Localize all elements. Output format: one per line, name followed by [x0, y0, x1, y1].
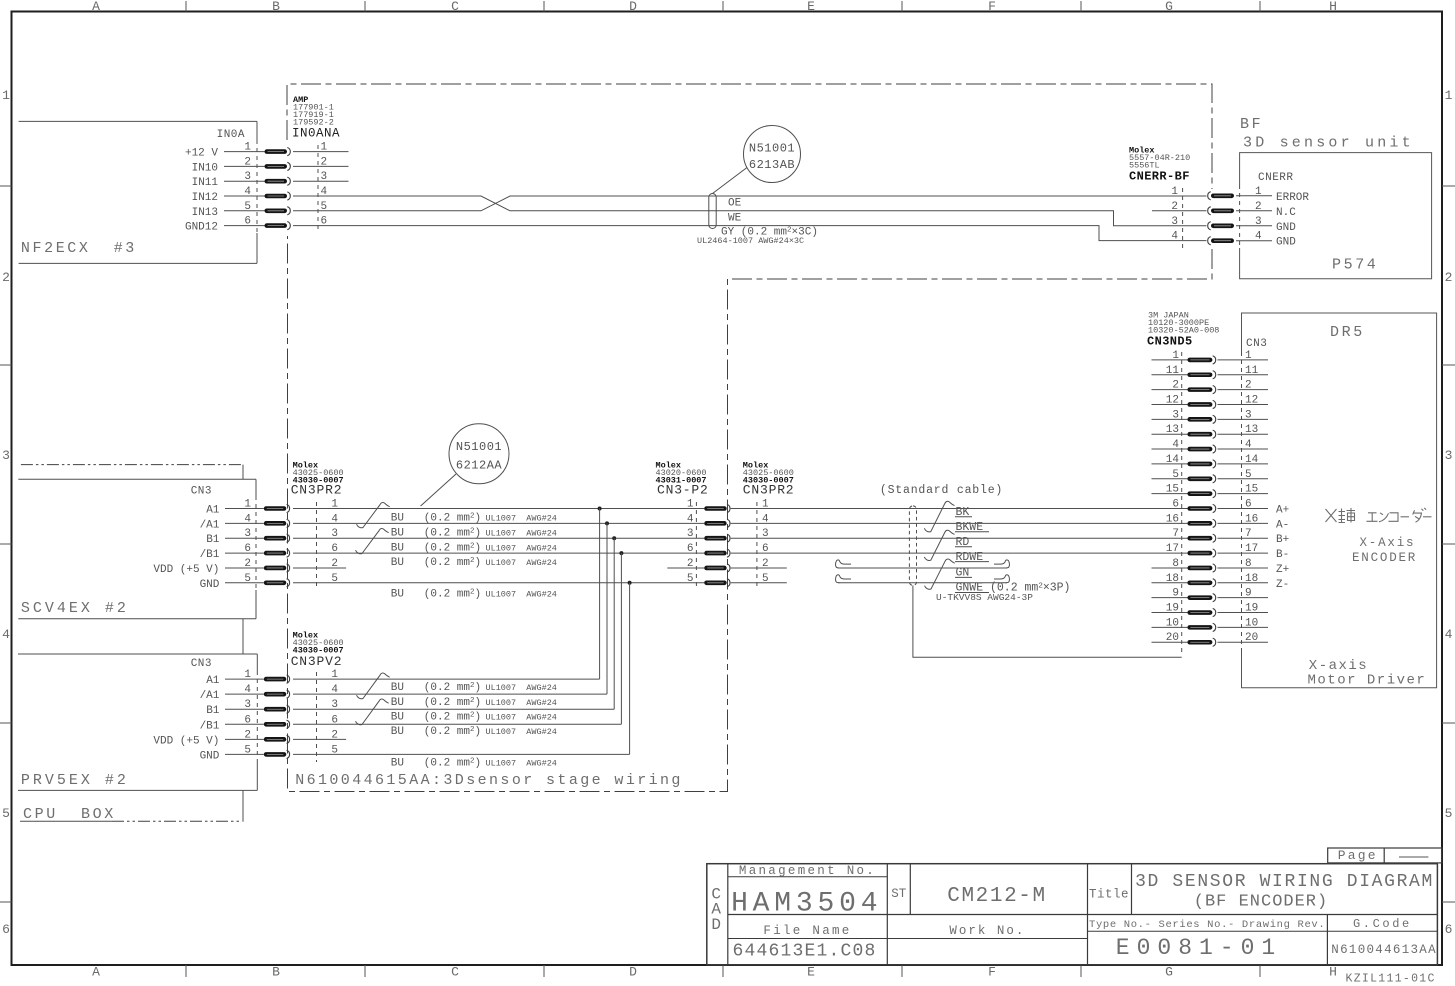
breakout marks standard cable: [924, 501, 954, 532]
svg-text:IN10: IN10: [192, 162, 218, 174]
breakout marks CN3PR2: [357, 503, 390, 528]
svg-text:IN13: IN13: [192, 207, 218, 219]
svg-text:/A1: /A1: [200, 519, 220, 531]
connector CN3ND5 dashed boundary: [1181, 352, 1183, 655]
device SCV4EX #2: [18, 478, 256, 480]
svg-text:IN0ANA: IN0ANA: [292, 127, 340, 141]
svg-text:D: D: [711, 916, 721, 934]
svg-text:6: 6: [244, 216, 251, 228]
svg-text:1: 1: [1245, 350, 1252, 362]
page box: [1328, 848, 1442, 863]
svg-text:UL1007 AWG#24: UL1007 AWG#24: [486, 529, 557, 539]
svg-text:UL2464-1007 AWG#24×3C: UL2464-1007 AWG#24×3C: [697, 236, 804, 246]
svg-text:BU (0.2 mm2): BU (0.2 mm2): [391, 682, 481, 694]
wire RD to DR5 pin7: [731, 537, 1188, 539]
svg-text:1: 1: [1255, 186, 1262, 198]
wire /B1: [293, 552, 704, 554]
svg-text:12: 12: [1245, 394, 1258, 406]
svg-text:G.Code: G.Code: [1353, 917, 1412, 931]
svg-text:3: 3: [2, 448, 10, 463]
svg-text:H: H: [1329, 0, 1337, 14]
svg-text:CN3: CN3: [191, 658, 212, 670]
CPU BOX boundary: [21, 464, 243, 466]
svg-text:2: 2: [1445, 270, 1453, 285]
spare wire GNWE with curled ends: [838, 582, 1007, 584]
wire /B1 PRV5EX: [293, 723, 621, 725]
svg-text:C: C: [451, 0, 459, 14]
svg-text:Title: Title: [1089, 888, 1129, 902]
svg-text:CN3PR2: CN3PR2: [743, 483, 795, 498]
junction + tap wire 3: [612, 536, 616, 540]
wire VDD stub PRV5EX: [293, 738, 346, 740]
svg-text:7: 7: [1245, 528, 1252, 540]
wire BKWE to DR5 pin16: [731, 522, 1188, 524]
svg-text:UL1007 AWG#24: UL1007 AWG#24: [486, 514, 557, 524]
svg-text:A: A: [92, 965, 100, 980]
svg-text:F: F: [988, 0, 996, 14]
svg-text:N610044615AA:3Dsensor stage wi: N610044615AA:3Dsensor stage wiring: [295, 772, 683, 789]
svg-text:CPU BOX: CPU BOX: [23, 806, 116, 823]
svg-text:BF: BF: [1240, 116, 1263, 133]
svg-text:6: 6: [687, 543, 694, 555]
svg-text:4: 4: [2, 627, 10, 642]
svg-text:14: 14: [1245, 454, 1259, 466]
junction + tap wire 5: [628, 581, 632, 585]
svg-text:B1: B1: [206, 534, 220, 546]
svg-text:/B1: /B1: [200, 720, 220, 732]
wire GND SCV4EX to CN3-P2: [293, 582, 704, 584]
svg-text:B+: B+: [1276, 534, 1289, 546]
svg-text:5: 5: [1245, 469, 1252, 481]
svg-text:BU (0.2 mm2): BU (0.2 mm2): [391, 758, 481, 770]
cable bundle oval: [709, 194, 716, 229]
shield/drain wire to CN3ND5: [913, 585, 1182, 657]
svg-text:Type No.- Series No.- Drawing: Type No.- Series No.- Drawing Rev.: [1089, 919, 1325, 931]
wire GND12 (to CNERR pin4): [293, 226, 1207, 241]
callout balloon N51001 6212AA: [449, 424, 509, 484]
svg-text:3D sensor unit: 3D sensor unit: [1243, 135, 1414, 152]
svg-text:Page: Page: [1338, 848, 1378, 863]
svg-text:NF2ECX #3: NF2ECX #3: [21, 240, 137, 257]
svg-text:N51001: N51001: [456, 440, 502, 454]
wire RDWE to DR5 pin17: [731, 552, 1188, 554]
svg-text:Z-: Z-: [1276, 579, 1289, 591]
svg-text:G: G: [1165, 0, 1173, 14]
svg-text:IN12: IN12: [192, 192, 218, 204]
device NF2ECX #3: [19, 120, 257, 122]
svg-text:UL1007 AWG#24: UL1007 AWG#24: [486, 759, 557, 769]
svg-text:OE: OE: [728, 198, 742, 210]
stub VDD at CN3-P2: [667, 567, 704, 569]
svg-text:2: 2: [1171, 201, 1178, 213]
svg-text:G: G: [1165, 965, 1173, 980]
svg-text:BU (0.2 mm2): BU (0.2 mm2): [391, 697, 481, 709]
wire B1 PRV5EX: [293, 708, 614, 710]
svg-text:6213AB: 6213AB: [749, 158, 795, 172]
svg-text:1: 1: [244, 499, 251, 511]
stub VDD right of CN3PR2: [731, 567, 787, 569]
svg-text:6: 6: [244, 714, 251, 726]
breakout marks CN3PV2: [357, 673, 390, 699]
svg-text:B1: B1: [206, 705, 220, 717]
svg-text:/B1: /B1: [200, 549, 220, 561]
svg-text:N610044613AA: N610044613AA: [1331, 943, 1437, 957]
wire VDD stub: [293, 567, 346, 569]
svg-text:File Name: File Name: [763, 924, 851, 938]
svg-text:N51001: N51001: [749, 142, 795, 156]
svg-text:3: 3: [1445, 448, 1453, 463]
svg-text:UL1007 AWG#24: UL1007 AWG#24: [486, 698, 557, 708]
svg-text:5: 5: [244, 573, 251, 585]
svg-text:F: F: [988, 965, 996, 980]
svg-text:X-Axis: X-Axis: [1360, 536, 1416, 550]
svg-text:9: 9: [1245, 588, 1252, 600]
svg-text:A1: A1: [206, 675, 220, 687]
svg-text:+12 V: +12 V: [185, 148, 218, 160]
svg-text:U-TKVV8S AWG24-3P: U-TKVV8S AWG24-3P: [936, 592, 1033, 603]
svg-text:UL1007 AWG#24: UL1007 AWG#24: [486, 712, 557, 722]
svg-text:4: 4: [244, 684, 251, 696]
svg-text:GND12: GND12: [185, 222, 218, 234]
svg-text:GND: GND: [200, 579, 220, 591]
svg-text:GND: GND: [1276, 237, 1296, 249]
svg-text:1: 1: [1445, 88, 1453, 103]
svg-text:1: 1: [244, 142, 251, 154]
svg-text:UL1007 AWG#24: UL1007 AWG#24: [486, 543, 557, 553]
svg-text:10: 10: [1245, 617, 1258, 629]
svg-text:Management No.: Management No.: [739, 864, 876, 878]
svg-text:CN3PR2: CN3PR2: [291, 483, 343, 498]
svg-text:CN3PV2: CN3PV2: [291, 654, 343, 669]
svg-text:B: B: [272, 965, 280, 980]
svg-text:ENCODER: ENCODER: [1352, 551, 1417, 565]
svg-text:11: 11: [1245, 365, 1259, 377]
svg-text:5: 5: [1445, 806, 1453, 821]
svg-text:VDD (+5 V): VDD (+5 V): [153, 735, 219, 747]
svg-text:/A1: /A1: [200, 690, 220, 702]
svg-text:WE: WE: [728, 213, 742, 225]
svg-text:19: 19: [1245, 603, 1258, 615]
svg-text:Z+: Z+: [1276, 564, 1289, 576]
svg-text:BU (0.2 mm2): BU (0.2 mm2): [391, 528, 481, 540]
svg-text:BU (0.2 mm2): BU (0.2 mm2): [391, 726, 481, 738]
svg-text:CN3: CN3: [1246, 338, 1267, 350]
svg-text:VDD (+5 V): VDD (+5 V): [153, 564, 219, 576]
svg-text:2: 2: [2, 270, 10, 285]
svg-text:(BF ENCODER): (BF ENCODER): [1194, 892, 1328, 911]
svg-text:E: E: [807, 0, 815, 14]
cable assembly boundary N610044615AA: [287, 84, 1212, 189]
svg-text:3: 3: [1171, 216, 1178, 228]
title block: [707, 864, 1438, 965]
svg-text:5: 5: [687, 573, 694, 585]
svg-text:6212AA: 6212AA: [456, 459, 503, 473]
svg-text:P574: P574: [1332, 257, 1378, 274]
connector IN0ANA dashed boundary: [317, 145, 319, 232]
svg-text:6: 6: [2, 922, 10, 937]
wire A1 PRV5EX: [293, 678, 600, 680]
svg-text:4: 4: [1245, 439, 1252, 451]
svg-text:3D SENSOR WIRING DIAGRAM: 3D SENSOR WIRING DIAGRAM: [1135, 872, 1434, 892]
svg-text:D: D: [629, 0, 637, 14]
svg-text:CN3ND5: CN3ND5: [1147, 335, 1193, 349]
svg-text:C: C: [451, 965, 459, 980]
device DR5 X-axis motor driver: [1242, 313, 1437, 688]
svg-text:CN3-P2: CN3-P2: [657, 483, 709, 498]
spare wire GN with curled ends: [838, 567, 1007, 569]
wire GND PRV5EX: [293, 753, 630, 755]
label X-axis encoder (JP): [1326, 508, 1432, 523]
svg-text:CNERR: CNERR: [1258, 172, 1294, 184]
svg-text:1: 1: [244, 669, 251, 681]
svg-text:BU (0.2 mm2): BU (0.2 mm2): [391, 589, 481, 601]
svg-text:3: 3: [1245, 409, 1252, 421]
cable sheath marker (dashed capsule): [909, 506, 916, 586]
svg-text:4: 4: [687, 513, 694, 525]
svg-text:E0081-01: E0081-01: [1116, 935, 1282, 961]
svg-text:A1: A1: [206, 505, 220, 517]
svg-text:2: 2: [244, 729, 251, 741]
svg-text:8: 8: [1245, 558, 1252, 570]
svg-text:DR5: DR5: [1330, 324, 1365, 341]
callout balloon N51001 6213AB: [744, 126, 801, 183]
svg-text:3: 3: [244, 699, 251, 711]
svg-text:18: 18: [1245, 573, 1258, 585]
svg-text:4: 4: [244, 513, 251, 525]
svg-text:5: 5: [244, 201, 251, 213]
stub CNERR pin2 N.C: [1152, 210, 1207, 212]
svg-text:1: 1: [1171, 186, 1178, 198]
svg-text:16: 16: [1245, 513, 1258, 525]
svg-text:ST: ST: [891, 887, 907, 901]
svg-text:1: 1: [687, 499, 694, 511]
svg-text:3: 3: [687, 528, 694, 540]
svg-text:6: 6: [1445, 922, 1453, 937]
connector CNERR-BF dashed boundary: [1182, 188, 1184, 248]
svg-text:B: B: [272, 0, 280, 14]
svg-text:4: 4: [1445, 627, 1453, 642]
svg-text:BU (0.2 mm2): BU (0.2 mm2): [391, 542, 481, 554]
svg-text:A-: A-: [1276, 519, 1289, 531]
wire IN13 (crossover to OE, to CNERR pin1): [293, 196, 1207, 211]
svg-text:3: 3: [244, 171, 251, 183]
svg-text:6: 6: [1245, 499, 1252, 511]
svg-text:BU (0.2 mm2): BU (0.2 mm2): [391, 711, 481, 723]
stub GND right of CN3PR2: [731, 582, 787, 584]
wire A1 SCV4EX to CN3-P2: [293, 508, 704, 510]
svg-text:H: H: [1329, 965, 1337, 980]
svg-text:(Standard cable): (Standard cable): [880, 484, 1003, 497]
svg-text:15: 15: [1245, 484, 1258, 496]
device PRV5EX #2: [18, 653, 257, 655]
svg-text:CM212-M: CM212-M: [947, 885, 1046, 908]
svg-text:PRV5EX #2: PRV5EX #2: [21, 772, 129, 789]
junction + tap wire 1: [598, 507, 602, 511]
svg-text:IN11: IN11: [192, 177, 219, 189]
svg-text:UL1007 AWG#24: UL1007 AWG#24: [486, 727, 557, 737]
svg-text:CNERR-BF: CNERR-BF: [1129, 170, 1190, 184]
svg-text:6: 6: [244, 543, 251, 555]
svg-text:2: 2: [1245, 380, 1252, 392]
svg-text:GND: GND: [1276, 222, 1296, 234]
svg-text:20: 20: [1245, 632, 1258, 644]
svg-text:HAM3504: HAM3504: [731, 889, 882, 920]
svg-text:644613E1.C08: 644613E1.C08: [733, 942, 877, 962]
svg-text:KZIL111-01C: KZIL111-01C: [1346, 972, 1436, 985]
svg-text:ERROR: ERROR: [1276, 192, 1309, 204]
svg-text:B-: B-: [1276, 549, 1289, 561]
svg-text:4: 4: [244, 186, 251, 198]
svg-text:BU (0.2 mm2): BU (0.2 mm2): [391, 513, 481, 525]
svg-text:2: 2: [1255, 201, 1262, 213]
svg-text:5: 5: [2, 806, 10, 821]
svg-text:BU (0.2 mm2): BU (0.2 mm2): [391, 557, 481, 569]
wire BK to DR5 pin6: [731, 508, 1188, 510]
svg-text:5: 5: [244, 744, 251, 756]
svg-text:D: D: [629, 965, 637, 980]
junction + tap wire 4: [619, 551, 623, 555]
wire /A1 PRV5EX: [293, 693, 607, 695]
svg-text:GND: GND: [200, 750, 220, 762]
svg-text:Work No.: Work No.: [949, 924, 1025, 938]
svg-text:2: 2: [244, 558, 251, 570]
svg-text:13: 13: [1245, 424, 1258, 436]
svg-text:3: 3: [1255, 216, 1262, 228]
svg-text:UL1007 AWG#24: UL1007 AWG#24: [486, 590, 557, 600]
svg-text:N.C: N.C: [1276, 207, 1296, 219]
svg-text:4: 4: [1171, 231, 1178, 243]
wire B1: [293, 537, 704, 539]
svg-text:IN0A: IN0A: [217, 129, 245, 141]
wire IN12 (crossover to WE, steps to CNERR pin3): [293, 196, 1207, 226]
svg-text:1: 1: [2, 88, 10, 103]
svg-text:3: 3: [244, 528, 251, 540]
svg-text:CN3: CN3: [191, 486, 212, 498]
svg-text:A: A: [92, 0, 100, 14]
svg-text:UL1007 AWG#24: UL1007 AWG#24: [486, 683, 557, 693]
svg-text:E: E: [807, 965, 815, 980]
svg-text:A+: A+: [1276, 505, 1289, 517]
svg-text:Motor Driver: Motor Driver: [1308, 673, 1427, 689]
svg-text:17: 17: [1245, 543, 1258, 555]
svg-text:4: 4: [1255, 231, 1262, 243]
junction + tap wire 2: [605, 521, 609, 525]
wire /A1: [293, 522, 704, 524]
svg-text:SCV4EX #2: SCV4EX #2: [21, 600, 129, 617]
svg-text:UL1007 AWG#24: UL1007 AWG#24: [486, 558, 557, 568]
svg-text:2: 2: [244, 156, 251, 168]
